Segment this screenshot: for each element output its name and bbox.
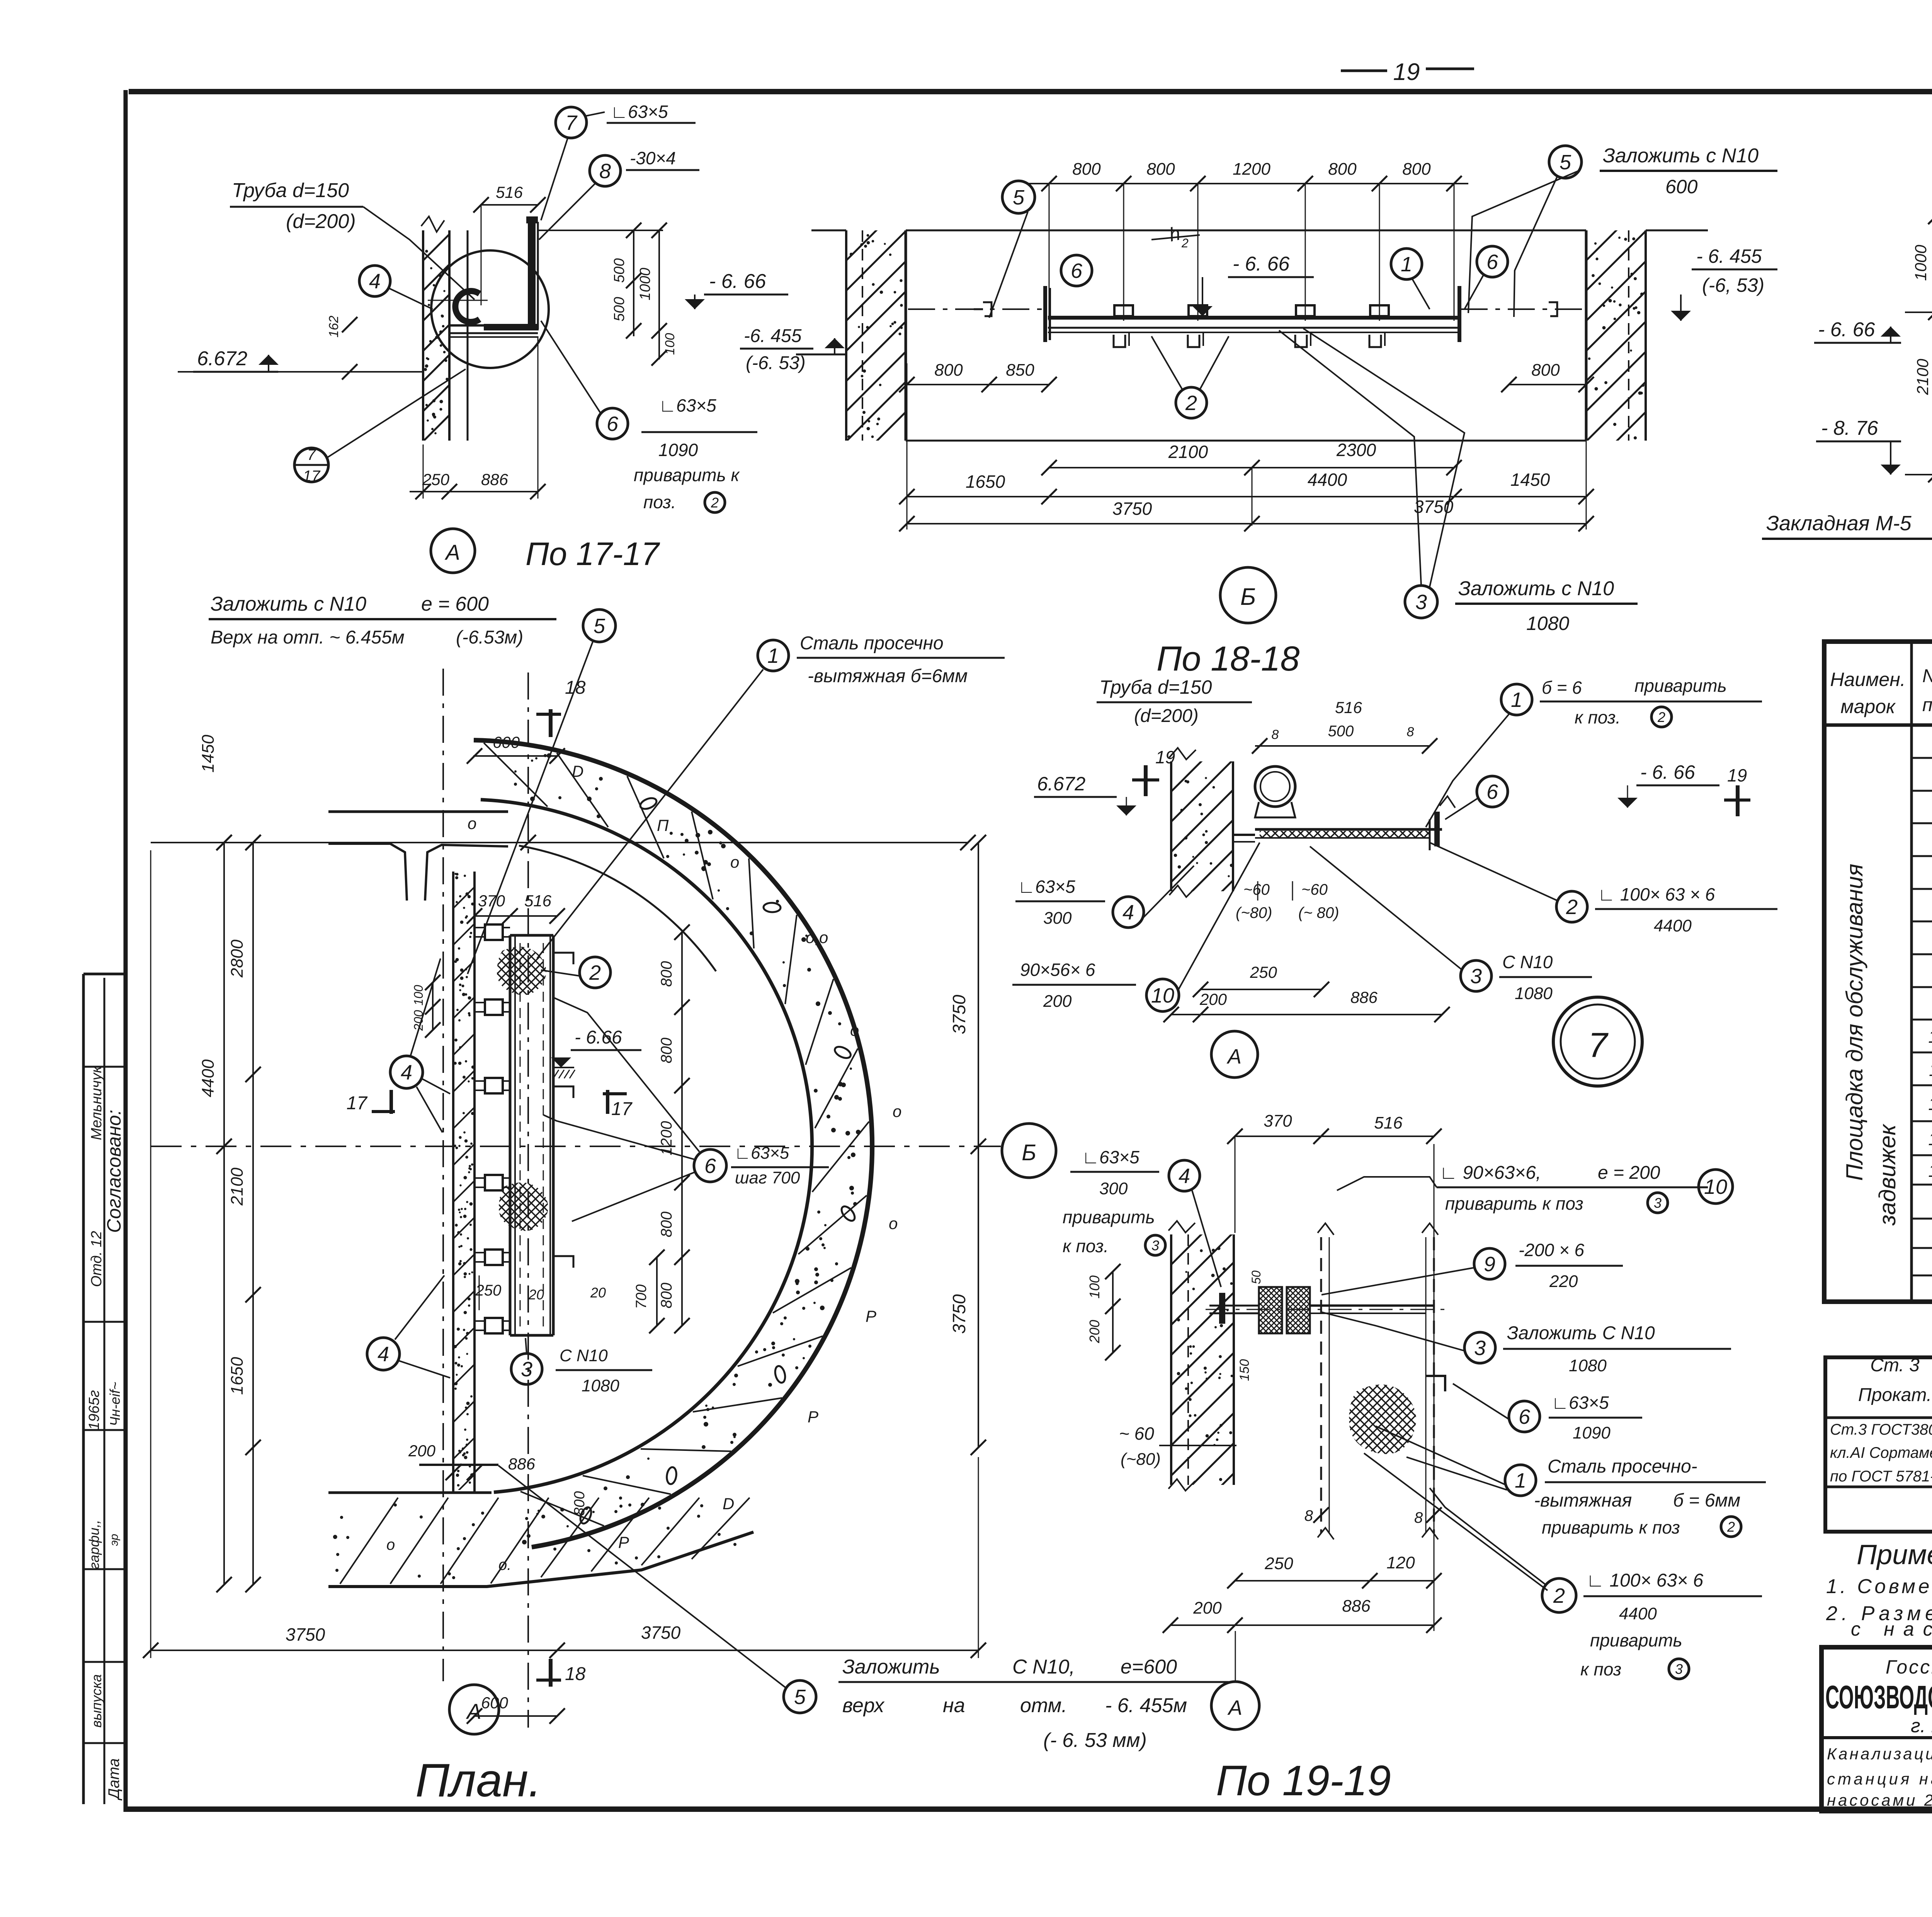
svg-text:800: 800: [1072, 160, 1101, 179]
svg-text:(-6, 53): (-6, 53): [1702, 274, 1764, 296]
svg-text:СОЮЗВОДОКАНАЛПРОЕКТ: СОЮЗВОДОКАНАЛПРОЕКТ: [1825, 1679, 1932, 1715]
svg-text:2: 2: [1566, 896, 1578, 919]
svg-text:Сталь просечно: Сталь просечно: [800, 633, 944, 654]
svg-text:(-6. 53): (-6. 53): [746, 353, 806, 373]
svg-text:2: 2: [1727, 1519, 1735, 1535]
svg-text:11: 11: [1929, 1060, 1932, 1080]
svg-text:~ 60: ~ 60: [1119, 1423, 1154, 1444]
svg-text:N°: N°: [1922, 666, 1932, 686]
svg-text:2: 2: [1185, 392, 1197, 415]
svg-text:2100: 2100: [1913, 359, 1932, 395]
svg-text:17: 17: [303, 468, 321, 485]
svg-text:Б: Б: [1240, 584, 1256, 610]
svg-text:Б: Б: [1022, 1140, 1036, 1165]
svg-text:кл.АI Сортамент: кл.АI Сортамент: [1830, 1444, 1932, 1461]
svg-text:Верх на отп. ~ 6.455м: Верх на отп. ~ 6.455м: [211, 627, 405, 648]
svg-text:9: 9: [1484, 1253, 1495, 1276]
svg-text:о: о: [386, 1536, 395, 1553]
svg-text:4400: 4400: [199, 1059, 218, 1097]
svg-text:2100: 2100: [228, 1168, 247, 1206]
svg-text:3750: 3750: [641, 1622, 681, 1643]
svg-text:Госстрой СССР: Госстрой СССР: [1886, 1656, 1932, 1678]
svg-text:- 6.66: - 6.66: [575, 1027, 622, 1048]
svg-text:3: 3: [1675, 1661, 1683, 1677]
svg-text:3750: 3750: [949, 1294, 969, 1334]
svg-text:П: П: [657, 816, 669, 834]
svg-text:800: 800: [1146, 160, 1175, 179]
svg-text:19: 19: [1393, 59, 1420, 85]
svg-text:Ст. 3: Ст. 3: [1870, 1355, 1920, 1376]
svg-text:17: 17: [611, 1099, 633, 1119]
svg-text:о: о: [889, 1214, 898, 1233]
svg-text:(d=200): (d=200): [1134, 706, 1199, 726]
svg-text:е=600: е=600: [1121, 1656, 1177, 1678]
svg-text:1080: 1080: [1515, 984, 1553, 1003]
svg-text:8: 8: [1304, 1507, 1313, 1524]
svg-text:приварить к: приварить к: [634, 465, 740, 485]
svg-text:о: о: [468, 814, 476, 833]
svg-text:14: 14: [1928, 1161, 1932, 1181]
svg-text:5: 5: [1013, 186, 1025, 209]
svg-text:отм.: отм.: [1020, 1694, 1067, 1717]
svg-text:по ГОСТ 5781-61: по ГОСТ 5781-61: [1830, 1468, 1932, 1485]
svg-text:о: о: [730, 853, 739, 871]
svg-text:приварить: приварить: [1634, 676, 1727, 696]
svg-text:(d=200): (d=200): [286, 210, 356, 233]
svg-text:886: 886: [481, 470, 509, 489]
svg-text:2: 2: [1181, 236, 1189, 250]
svg-text:516: 516: [524, 892, 552, 910]
svg-text:1965г: 1965г: [86, 1390, 102, 1430]
svg-text:Закладная М-5: Закладная М-5: [1766, 512, 1912, 535]
svg-text:приварить: приварить: [1063, 1207, 1155, 1227]
svg-text:∟63×5: ∟63×5: [659, 395, 716, 415]
svg-text:- 6. 455м: - 6. 455м: [1105, 1694, 1187, 1717]
svg-text:3750: 3750: [286, 1624, 325, 1645]
svg-text:6: 6: [1519, 1405, 1531, 1428]
svg-text:800: 800: [571, 1491, 588, 1515]
svg-text:эр: эр: [108, 1534, 121, 1546]
svg-text:200: 200: [412, 1010, 425, 1031]
svg-text:приварить к поз: приварить к поз: [1445, 1193, 1583, 1214]
svg-text:19: 19: [1727, 765, 1747, 785]
svg-text:3: 3: [521, 1358, 532, 1381]
svg-text:516: 516: [1374, 1113, 1403, 1132]
svg-text:С N10: С N10: [1502, 952, 1553, 972]
svg-text:100: 100: [412, 985, 425, 1006]
svg-text:100: 100: [1087, 1275, 1102, 1299]
svg-text:200: 200: [1087, 1320, 1102, 1343]
svg-text:- 6. 66: - 6. 66: [1818, 318, 1875, 341]
svg-text:100: 100: [663, 333, 677, 355]
svg-text:600: 600: [1665, 176, 1698, 197]
svg-text:к поз: к поз: [1580, 1659, 1621, 1679]
svg-text:задвижек: задвижек: [1874, 1124, 1900, 1226]
svg-text:Труба d=150: Труба d=150: [1099, 676, 1212, 698]
svg-text:370: 370: [478, 892, 505, 910]
svg-text:220: 220: [1549, 1272, 1578, 1291]
svg-text:7: 7: [1588, 1026, 1609, 1065]
svg-text:~60: ~60: [1243, 881, 1270, 898]
svg-text:8: 8: [1414, 1509, 1423, 1526]
svg-text:1080: 1080: [582, 1376, 619, 1395]
svg-text:90×56× 6: 90×56× 6: [1020, 960, 1095, 980]
svg-text:2. Размеры в круглых ско: 2. Размеры в круглых скобках даны для ст…: [1826, 1602, 1932, 1625]
svg-text:2: 2: [1657, 709, 1665, 725]
svg-text:250: 250: [1250, 963, 1277, 981]
svg-text:По 18-18: По 18-18: [1156, 640, 1299, 678]
svg-text:Заложить: Заложить: [842, 1656, 940, 1678]
svg-text:- 6. 66: - 6. 66: [1640, 761, 1695, 783]
svg-text:2: 2: [1553, 1584, 1565, 1607]
svg-text:6: 6: [704, 1154, 716, 1178]
svg-text:А: А: [466, 1699, 481, 1723]
svg-text:800: 800: [1328, 160, 1357, 179]
svg-text:800: 800: [658, 1283, 675, 1309]
svg-text:к поз.: к поз.: [1063, 1236, 1109, 1256]
svg-text:(~80): (~80): [1121, 1450, 1161, 1469]
svg-text:516: 516: [1335, 698, 1362, 717]
svg-text:4400: 4400: [1654, 916, 1692, 935]
svg-text:150: 150: [1237, 1359, 1252, 1381]
svg-text:Ст.3 ГОСТ380-60: Ст.3 ГОСТ380-60: [1830, 1421, 1932, 1438]
svg-text:станция на 2 агрегатас: станция на 2 агрегатас: [1827, 1770, 1932, 1788]
svg-text:500: 500: [611, 258, 628, 283]
svg-text:370: 370: [1264, 1112, 1292, 1130]
svg-text:6: 6: [1486, 250, 1498, 274]
svg-text:- 6. 66: - 6. 66: [709, 270, 766, 293]
svg-text:2300: 2300: [1336, 440, 1376, 460]
svg-text:По 17-17: По 17-17: [526, 536, 660, 572]
svg-text:4: 4: [369, 270, 381, 293]
svg-text:(~ 80): (~ 80): [1298, 904, 1339, 921]
svg-text:250: 250: [422, 470, 450, 489]
svg-text:Заложить с N10: Заложить с N10: [1603, 145, 1759, 167]
svg-text:3750: 3750: [949, 994, 969, 1034]
svg-text:D: D: [723, 1495, 734, 1513]
svg-text:600: 600: [493, 733, 520, 751]
svg-text:на: на: [943, 1694, 965, 1717]
svg-text:3: 3: [1654, 1195, 1662, 1211]
svg-text:D: D: [572, 762, 583, 780]
svg-text:∟ 100× 63 × 6: ∟ 100× 63 × 6: [1598, 884, 1715, 904]
svg-text:выпуска: выпуска: [88, 1674, 104, 1728]
svg-text:~60: ~60: [1301, 881, 1328, 898]
svg-text:Заложить С N10: Заложить С N10: [1507, 1323, 1655, 1343]
svg-text:1090: 1090: [658, 440, 698, 460]
svg-text:500: 500: [611, 297, 628, 321]
svg-text:А: А: [444, 540, 460, 564]
svg-text:поз.: поз.: [643, 492, 676, 512]
svg-text:13: 13: [1928, 1129, 1932, 1149]
svg-text:1650: 1650: [966, 472, 1005, 492]
svg-text:17: 17: [347, 1093, 368, 1113]
svg-text:гарфи,,: гарфи,,: [86, 1520, 102, 1570]
svg-text:4400: 4400: [1308, 470, 1347, 490]
svg-text:приварить: приварить: [1590, 1630, 1682, 1650]
svg-text:500: 500: [1328, 723, 1354, 740]
svg-text:Заложить с N10: Заложить с N10: [211, 593, 366, 615]
svg-text:8: 8: [599, 160, 611, 183]
svg-text:8: 8: [1407, 725, 1414, 739]
svg-text:7: 7: [307, 446, 316, 463]
svg-text:886: 886: [1350, 988, 1378, 1006]
svg-text:∟63×5: ∟63×5: [611, 102, 668, 122]
svg-text:1080: 1080: [1526, 613, 1569, 634]
svg-text:5: 5: [594, 615, 605, 638]
svg-text:поз: поз: [1922, 695, 1932, 715]
svg-text:- 6. 66: - 6. 66: [1233, 253, 1289, 275]
svg-text:18: 18: [565, 1664, 586, 1684]
svg-text:4: 4: [401, 1061, 412, 1084]
svg-text:-6. 455: -6. 455: [744, 326, 802, 346]
svg-text:850: 850: [1006, 361, 1034, 380]
svg-text:2100: 2100: [1168, 442, 1208, 462]
svg-text:2: 2: [589, 961, 601, 984]
svg-text:7: 7: [565, 111, 578, 134]
svg-text:С N10: С N10: [560, 1346, 608, 1365]
svg-text:∟63×5: ∟63×5: [734, 1144, 789, 1163]
svg-text:5: 5: [1560, 151, 1571, 174]
svg-text:Наимен.: Наимен.: [1830, 669, 1905, 690]
svg-text:б = 6: б = 6: [1542, 678, 1582, 698]
svg-text:А: А: [1226, 1045, 1242, 1068]
svg-text:∟63×5: ∟63×5: [1018, 877, 1075, 897]
svg-text:250: 250: [1264, 1554, 1293, 1573]
svg-text:10: 10: [1928, 1027, 1932, 1047]
svg-text:Канализационная насосная: Канализационная насосная: [1827, 1745, 1932, 1763]
svg-text:800: 800: [1531, 361, 1560, 380]
svg-text:12: 12: [1928, 1094, 1932, 1114]
svg-text:50: 50: [1249, 1270, 1263, 1284]
svg-text:-вытяжная: -вытяжная: [1534, 1490, 1632, 1511]
svg-text:300: 300: [1043, 909, 1072, 928]
svg-text:1: 1: [1515, 1469, 1526, 1492]
svg-text:верх: верх: [842, 1694, 885, 1717]
svg-text:4: 4: [1179, 1165, 1190, 1188]
svg-text:3: 3: [1470, 965, 1482, 988]
svg-text:6: 6: [1071, 259, 1083, 283]
svg-text:1650: 1650: [228, 1357, 247, 1395]
svg-text:А: А: [1227, 1696, 1242, 1720]
svg-text:6: 6: [607, 412, 619, 436]
svg-text:1: 1: [1401, 253, 1412, 276]
svg-text:4: 4: [1122, 901, 1134, 924]
svg-text:20: 20: [528, 1287, 544, 1302]
svg-text:(~80): (~80): [1236, 904, 1272, 921]
svg-text:Согласовано:: Согласовано:: [103, 1110, 125, 1233]
svg-text:10: 10: [1704, 1175, 1727, 1199]
svg-text:о.: о.: [498, 1556, 511, 1573]
svg-text:516: 516: [496, 183, 523, 201]
svg-text:Мельничук: Мельничук: [88, 1065, 105, 1140]
svg-text:(-6.53м): (-6.53м): [456, 627, 523, 648]
svg-text:-вытяжная б=6мм: -вытяжная б=6мм: [808, 666, 968, 686]
svg-text:∟63×5: ∟63×5: [1082, 1147, 1139, 1167]
svg-text:8: 8: [1272, 727, 1279, 742]
svg-text:886: 886: [1342, 1597, 1371, 1616]
svg-text:б = 6мм: б = 6мм: [1673, 1490, 1740, 1511]
svg-text:- 6. 455: - 6. 455: [1696, 245, 1762, 267]
svg-text:Сталь просечно-: Сталь просечно-: [1548, 1456, 1697, 1477]
svg-text:Примечания:: Примечания:: [1857, 1539, 1932, 1570]
svg-text:марок: марок: [1840, 696, 1896, 717]
svg-text:19: 19: [1155, 747, 1175, 767]
svg-text:∟ 100× 63× 6: ∟ 100× 63× 6: [1586, 1570, 1704, 1591]
svg-text:С N10,: С N10,: [1012, 1656, 1075, 1678]
svg-text:1000: 1000: [637, 268, 653, 301]
svg-text:шаг 700: шаг 700: [735, 1168, 800, 1187]
svg-text:Р: Р: [808, 1408, 818, 1426]
svg-text:(- 6. 53 мм): (- 6. 53 мм): [1043, 1729, 1147, 1752]
svg-text:Р: Р: [866, 1307, 876, 1325]
svg-text:700: 700: [633, 1284, 650, 1309]
svg-text:Заложить с N10: Заложить с N10: [1458, 577, 1614, 600]
svg-text:1090: 1090: [1573, 1423, 1611, 1442]
svg-text:6: 6: [1486, 780, 1498, 804]
svg-text:162: 162: [327, 316, 341, 338]
svg-text:4400: 4400: [1619, 1604, 1657, 1623]
svg-text:о: о: [850, 1021, 859, 1039]
svg-text:800: 800: [658, 1212, 675, 1238]
svg-text:1: 1: [767, 644, 779, 667]
svg-text:1: 1: [1511, 688, 1522, 712]
svg-text:приварить к поз: приварить к поз: [1542, 1517, 1680, 1537]
svg-text:Чн-еif~: Чн-еif~: [107, 1382, 123, 1426]
svg-text:200: 200: [1043, 992, 1072, 1011]
svg-text:800: 800: [1402, 160, 1431, 179]
svg-text:е = 600: е = 600: [421, 593, 489, 615]
svg-text:•: •: [332, 1529, 338, 1546]
svg-text:По 19-19: По 19-19: [1216, 1757, 1391, 1805]
svg-text:2800: 2800: [228, 940, 247, 978]
svg-text:6.672: 6.672: [197, 347, 247, 370]
svg-text:4: 4: [378, 1343, 389, 1366]
svg-text:3: 3: [1151, 1238, 1159, 1253]
svg-text:Р: Р: [618, 1533, 629, 1551]
svg-text:Отд. 12: Отд. 12: [88, 1231, 105, 1287]
svg-text:2: 2: [711, 495, 719, 511]
svg-text:3: 3: [1415, 591, 1427, 614]
svg-text:г. Москва: г. Москва: [1911, 1715, 1932, 1737]
svg-text:1200: 1200: [1233, 160, 1270, 179]
svg-text:120: 120: [1386, 1553, 1415, 1572]
svg-text:1450: 1450: [1510, 470, 1550, 490]
svg-text:План.: План.: [415, 1754, 541, 1806]
svg-text:Труба d=150: Труба d=150: [232, 179, 349, 202]
svg-text:200: 200: [1199, 990, 1227, 1008]
svg-text:1000: 1000: [1912, 245, 1930, 281]
svg-text:- 8. 76: - 8. 76: [1821, 417, 1878, 439]
svg-text:3750: 3750: [1112, 499, 1152, 519]
svg-text:800: 800: [658, 961, 675, 987]
svg-text:3: 3: [1474, 1336, 1486, 1360]
svg-text:о,о: о,о: [806, 928, 828, 947]
svg-text:800: 800: [934, 361, 963, 380]
svg-text:Прокат.: Прокат.: [1858, 1385, 1932, 1405]
svg-text:20: 20: [590, 1285, 606, 1301]
svg-text:е = 200: е = 200: [1598, 1163, 1660, 1183]
svg-text:к поз.: к поз.: [1575, 707, 1621, 727]
svg-text:-30×4: -30×4: [630, 148, 676, 168]
svg-text:о: о: [893, 1102, 901, 1120]
svg-text:200: 200: [1193, 1599, 1222, 1617]
svg-text:∟ 90×63×6,: ∟ 90×63×6,: [1439, 1163, 1541, 1183]
svg-text:200: 200: [408, 1442, 436, 1460]
svg-text:Дата: Дата: [105, 1758, 122, 1801]
svg-text:6.672: 6.672: [1037, 773, 1085, 795]
svg-text:-200 × 6: -200 × 6: [1519, 1240, 1584, 1260]
svg-text:886: 886: [508, 1455, 536, 1473]
svg-text:1450: 1450: [199, 735, 218, 773]
svg-text:300: 300: [1099, 1179, 1128, 1198]
svg-text:10: 10: [1151, 984, 1174, 1007]
svg-text:Площадка для обслуживания: Площадка для обслуживания: [1842, 864, 1867, 1181]
svg-text:5: 5: [794, 1685, 806, 1709]
svg-text:800: 800: [658, 1038, 675, 1064]
svg-text:∟63×5: ∟63×5: [1551, 1393, 1609, 1413]
svg-text:1080: 1080: [1569, 1356, 1607, 1375]
